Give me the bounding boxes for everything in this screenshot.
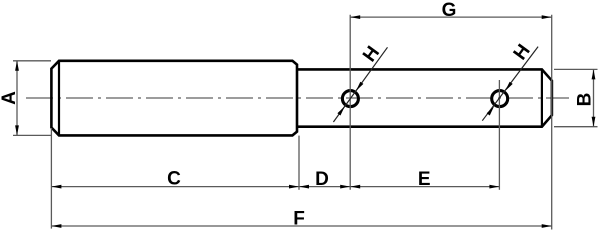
- dimension E: [350, 185, 499, 189]
- svg-text:H: H: [359, 42, 384, 65]
- dimension B: [554, 69, 598, 126]
- extension line right end: [551, 15, 553, 230]
- extension line left end: [50, 128, 52, 229]
- svg-text:H: H: [510, 41, 535, 64]
- pin body small section: [297, 69, 552, 126]
- svg-text:G: G: [442, 0, 457, 21]
- centerline (pin axis, dash-dot): [26, 97, 569, 99]
- hole 1: [342, 91, 358, 107]
- svg-text:F: F: [293, 209, 305, 230]
- dimension D: [299, 185, 350, 189]
- pin body large section: [51, 61, 297, 136]
- dimension C: [51, 185, 299, 189]
- svg-text:C: C: [167, 169, 181, 190]
- svg-text:E: E: [418, 169, 431, 190]
- dimension F: [51, 224, 551, 228]
- extension line hole 1: [349, 15, 351, 190]
- extension line hole 2: [498, 80, 500, 190]
- extension line step: [298, 136, 300, 190]
- svg-text:B: B: [575, 93, 596, 107]
- leader line hole 1: [333, 47, 387, 122]
- left chamfer transition line: [58, 61, 60, 136]
- svg-text:A: A: [0, 91, 20, 105]
- dimension G: [350, 15, 552, 19]
- svg-text:D: D: [315, 169, 329, 190]
- leader line hole 2: [482, 47, 538, 121]
- dimension A: [13, 61, 51, 136]
- hole 2: [492, 91, 508, 107]
- right chamfer transition line: [541, 69, 543, 126]
